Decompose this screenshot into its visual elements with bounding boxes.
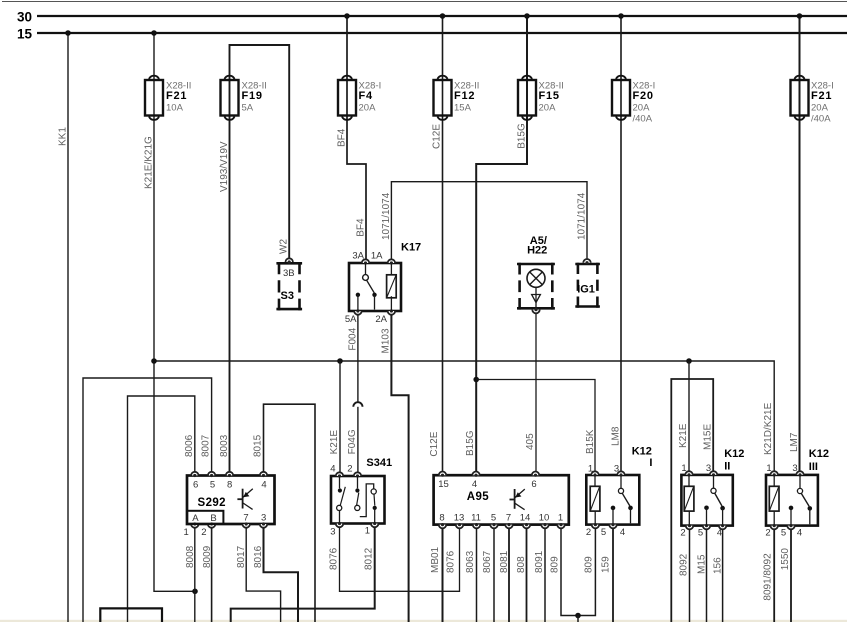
- wire 156: [712, 529, 723, 622]
- svg-text:/40A: /40A: [811, 113, 831, 124]
- wire 8012: [231, 527, 375, 622]
- svg-text:S292: S292: [198, 497, 226, 509]
- svg-text:4: 4: [330, 464, 335, 475]
- svg-text:F21: F21: [166, 90, 187, 102]
- svg-text:1: 1: [681, 463, 686, 474]
- svg-text:LM7: LM7: [789, 432, 800, 452]
- relay K12 III: [765, 448, 829, 539]
- svg-text:809: 809: [584, 556, 595, 573]
- svg-text:C12E: C12E: [432, 124, 443, 149]
- frame top border: [2, 1, 847, 3]
- svg-text:8007: 8007: [201, 434, 212, 457]
- unit IG1: [575, 259, 600, 308]
- svg-text:B15G: B15G: [465, 430, 476, 456]
- svg-text:1: 1: [588, 464, 593, 475]
- switch S341: [330, 457, 392, 538]
- svg-text:2: 2: [347, 464, 352, 475]
- svg-text:1: 1: [558, 513, 563, 524]
- wire 808: [516, 528, 527, 622]
- relay K17: [345, 242, 421, 326]
- wire 405: [525, 313, 536, 471]
- relay K12 I: [586, 445, 653, 538]
- wire LM7: [789, 13, 802, 471]
- svg-text:3A: 3A: [352, 251, 364, 262]
- svg-text:5: 5: [781, 528, 786, 539]
- svg-text:10: 10: [539, 513, 550, 524]
- wire LM8: [611, 13, 624, 471]
- svg-text:809: 809: [550, 556, 561, 573]
- svg-text:20A: 20A: [633, 102, 651, 113]
- wire W2: [230, 45, 290, 259]
- svg-text:3: 3: [261, 513, 266, 524]
- svg-text:B15K: B15K: [585, 429, 596, 454]
- svg-text:8063: 8063: [465, 550, 476, 573]
- svg-text:F04G: F04G: [347, 429, 358, 454]
- svg-text:8008: 8008: [185, 545, 196, 568]
- svg-text:/40A: /40A: [633, 113, 653, 124]
- svg-text:F004: F004: [347, 327, 358, 350]
- relay K12 II: [680, 448, 744, 539]
- svg-text:2: 2: [201, 527, 206, 538]
- svg-text:III: III: [809, 461, 818, 473]
- wire 8007: [83, 378, 212, 622]
- svg-text:K12: K12: [809, 448, 829, 460]
- svg-text:K12: K12: [632, 445, 652, 457]
- svg-text:5: 5: [210, 480, 215, 491]
- svg-text:BF4: BF4: [356, 218, 367, 237]
- svg-text:8016: 8016: [253, 545, 264, 568]
- svg-text:F20: F20: [633, 90, 654, 102]
- wire M15E: [671, 379, 713, 622]
- svg-text:8091/8092: 8091/8092: [763, 553, 774, 601]
- svg-text:4: 4: [620, 527, 625, 538]
- wire F004/F04G with hop: [347, 315, 363, 472]
- svg-text:K21E/K21G: K21E/K21G: [144, 136, 155, 189]
- svg-text:1550: 1550: [780, 548, 791, 571]
- svg-text:II: II: [724, 461, 730, 473]
- svg-text:8012: 8012: [364, 547, 375, 570]
- fuse F15: [518, 76, 564, 120]
- svg-text:2: 2: [586, 527, 591, 538]
- svg-text:8092: 8092: [678, 553, 689, 576]
- svg-text:8003: 8003: [219, 434, 230, 457]
- svg-text:7: 7: [506, 513, 511, 524]
- svg-text:1: 1: [365, 526, 370, 537]
- svg-text:C12E: C12E: [429, 431, 440, 456]
- svg-text:MB01: MB01: [430, 546, 441, 573]
- svg-text:F15: F15: [539, 90, 560, 102]
- wire 8092: [678, 529, 689, 622]
- wire K21E to S341: [329, 361, 340, 472]
- wire B15K: [476, 380, 596, 471]
- svg-text:LM8: LM8: [611, 426, 622, 446]
- svg-text:S3: S3: [281, 290, 294, 302]
- wire K21E/K21G: [144, 30, 198, 594]
- svg-text:20A: 20A: [539, 102, 557, 113]
- svg-text:F21: F21: [811, 90, 832, 102]
- bus 30: [17, 10, 847, 25]
- wire 8017: [236, 528, 281, 622]
- svg-text:5: 5: [601, 527, 606, 538]
- svg-text:3: 3: [792, 463, 797, 474]
- svg-text:7: 7: [243, 513, 248, 524]
- wire 8015: [253, 404, 316, 622]
- svg-text:4: 4: [472, 479, 477, 490]
- svg-text:1A: 1A: [371, 251, 383, 262]
- wire 809 A95pin1 to K12I pin2: [550, 528, 596, 622]
- svg-text:I: I: [649, 457, 652, 469]
- svg-text:F12: F12: [454, 90, 475, 102]
- svg-text:M15E: M15E: [703, 424, 714, 450]
- svg-text:4: 4: [797, 528, 802, 539]
- svg-text:13: 13: [454, 513, 465, 524]
- svg-text:8017: 8017: [236, 545, 247, 568]
- wire 1550: [780, 529, 791, 622]
- frame bottom strip: [0, 620, 847, 622]
- svg-text:4: 4: [717, 528, 722, 539]
- svg-text:BF4: BF4: [337, 128, 348, 147]
- svg-text:15: 15: [17, 27, 33, 42]
- svg-text:F4: F4: [359, 90, 374, 102]
- svg-text:KK1: KK1: [58, 127, 69, 146]
- svg-text:1: 1: [183, 527, 188, 538]
- svg-text:8076: 8076: [329, 547, 340, 570]
- wire M103: [380, 315, 408, 622]
- svg-text:5A: 5A: [345, 314, 357, 325]
- svg-text:A95: A95: [467, 491, 490, 503]
- svg-text:8: 8: [439, 513, 444, 524]
- wire M15: [696, 529, 707, 622]
- svg-text:F19: F19: [242, 90, 263, 102]
- wire 8091/8092: [763, 529, 775, 622]
- wire 8006: [128, 396, 195, 622]
- svg-text:11: 11: [471, 513, 481, 524]
- svg-text:B15G: B15G: [517, 123, 528, 149]
- wire V193/V19V: [219, 74, 230, 472]
- svg-text:3B: 3B: [283, 268, 295, 279]
- svg-text:15: 15: [438, 479, 449, 490]
- svg-text:4: 4: [261, 480, 266, 491]
- svg-text:8091: 8091: [534, 550, 545, 573]
- svg-text:1071/1074: 1071/1074: [577, 192, 588, 240]
- fuse F4: [338, 76, 381, 120]
- svg-text:6: 6: [531, 479, 536, 490]
- connector S292: [183, 472, 274, 538]
- wire 8008: [185, 528, 196, 622]
- svg-text:5: 5: [491, 513, 496, 524]
- svg-text:M103: M103: [380, 328, 391, 353]
- svg-text:M15: M15: [696, 554, 707, 574]
- svg-text:8076: 8076: [446, 550, 457, 573]
- unit A95: [434, 472, 569, 529]
- svg-text:1: 1: [766, 463, 771, 474]
- node bus K21E y361: [151, 358, 774, 471]
- svg-text:K21E: K21E: [678, 423, 689, 448]
- svg-text:159: 159: [601, 556, 612, 573]
- svg-text:405: 405: [525, 433, 536, 450]
- svg-text:30: 30: [17, 10, 32, 25]
- svg-text:K17: K17: [401, 242, 421, 254]
- svg-text:K21D/K21E: K21D/K21E: [763, 402, 774, 455]
- wire 8016: [253, 528, 298, 622]
- svg-text:8081: 8081: [499, 550, 510, 573]
- lamp A5/H22: [517, 235, 555, 313]
- fuse F21: [145, 76, 191, 120]
- svg-text:IG1: IG1: [577, 284, 595, 296]
- fuse F12: [434, 76, 480, 120]
- svg-text:20A: 20A: [359, 102, 377, 113]
- wire K21E to K12II: [678, 361, 689, 471]
- wire KK1: [58, 30, 71, 622]
- svg-text:3: 3: [706, 463, 711, 474]
- svg-text:K12: K12: [724, 448, 744, 460]
- bus 15: [17, 27, 847, 42]
- svg-text:2: 2: [765, 528, 770, 539]
- wire 8076 S341pin3 to A95pin13: [329, 527, 460, 591]
- wires MB01 and A95 bottom: [430, 528, 443, 622]
- svg-text:20A: 20A: [811, 102, 829, 113]
- svg-text:6: 6: [193, 480, 198, 491]
- connector box bottom-left: [100, 608, 162, 622]
- wire C12E: [429, 13, 445, 471]
- svg-text:10A: 10A: [166, 102, 184, 113]
- wire 8063: [465, 528, 477, 622]
- svg-text:V193/V19V: V193/V19V: [219, 141, 230, 192]
- svg-text:156: 156: [712, 557, 723, 574]
- svg-text:2: 2: [680, 528, 685, 539]
- svg-text:1071/1074: 1071/1074: [381, 192, 392, 240]
- svg-text:3: 3: [614, 464, 619, 475]
- svg-text:14: 14: [520, 513, 531, 524]
- svg-text:8006: 8006: [184, 434, 195, 457]
- wire 8081: [499, 528, 510, 622]
- wire 8067: [482, 528, 494, 622]
- svg-text:808: 808: [516, 556, 527, 573]
- svg-text:5: 5: [698, 528, 703, 539]
- wire 159: [601, 528, 614, 622]
- switch S3: [276, 258, 302, 310]
- wire 1071/1074: [381, 182, 588, 260]
- svg-text:H22: H22: [527, 244, 547, 256]
- fuse F21 right: [791, 76, 834, 125]
- fuse F20: [612, 76, 655, 125]
- svg-text:K21E: K21E: [329, 430, 340, 455]
- wire B15G: [465, 13, 530, 471]
- fuse F19: [221, 76, 267, 120]
- svg-text:15A: 15A: [454, 102, 472, 113]
- svg-text:8: 8: [227, 480, 232, 491]
- svg-text:A: A: [192, 513, 199, 524]
- svg-text:W2: W2: [279, 239, 290, 254]
- svg-text:3: 3: [330, 527, 335, 538]
- svg-text:5A: 5A: [242, 102, 254, 113]
- svg-text:S341: S341: [366, 457, 392, 469]
- wire BF4: [337, 13, 367, 259]
- wire 8009: [202, 528, 213, 622]
- wire 8091: [534, 528, 545, 622]
- svg-text:8067: 8067: [482, 550, 493, 573]
- svg-text:8009: 8009: [202, 545, 213, 568]
- svg-text:2A: 2A: [375, 314, 387, 325]
- svg-text:8015: 8015: [253, 434, 264, 457]
- svg-text:B: B: [210, 513, 216, 524]
